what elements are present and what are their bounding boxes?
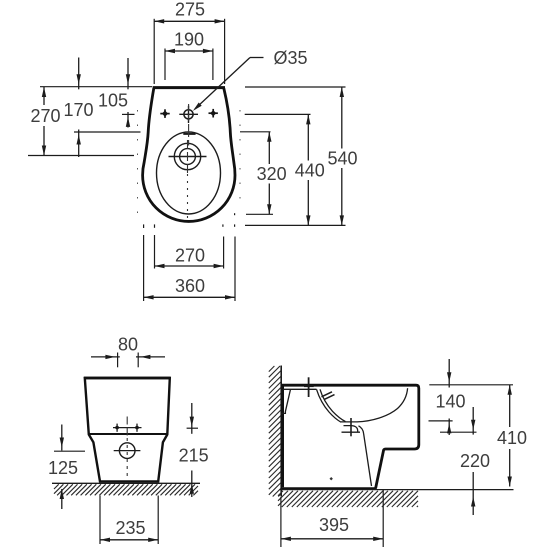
svg-text:440: 440 xyxy=(295,161,325,181)
svg-text:360: 360 xyxy=(175,276,205,296)
svg-text:Ø35: Ø35 xyxy=(273,48,307,68)
svg-text:215: 215 xyxy=(179,446,209,466)
svg-text:140: 140 xyxy=(435,392,465,412)
svg-text:270: 270 xyxy=(30,106,60,126)
svg-text:410: 410 xyxy=(497,428,527,448)
svg-text:270: 270 xyxy=(175,246,205,266)
svg-text:220: 220 xyxy=(460,451,490,471)
svg-text:275: 275 xyxy=(175,0,205,20)
svg-text:235: 235 xyxy=(115,518,145,538)
svg-text:125: 125 xyxy=(48,458,78,478)
svg-text:190: 190 xyxy=(174,30,204,50)
svg-text:395: 395 xyxy=(319,515,349,535)
svg-text:540: 540 xyxy=(327,149,357,169)
svg-text:105: 105 xyxy=(98,91,128,111)
svg-text:320: 320 xyxy=(257,164,287,184)
svg-text:80: 80 xyxy=(118,335,138,355)
svg-text:170: 170 xyxy=(63,100,93,120)
